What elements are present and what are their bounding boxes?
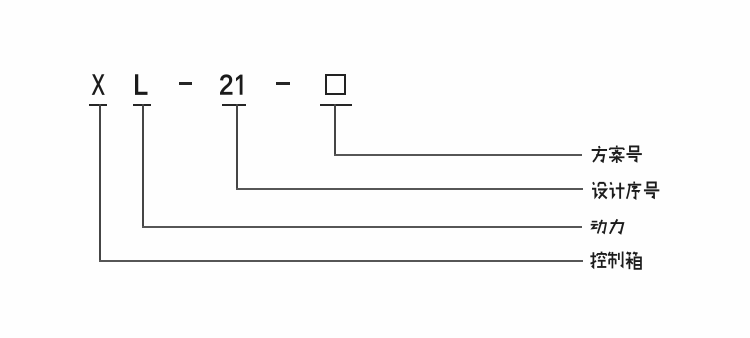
- model code digit 1: [236, 75, 242, 94]
- leader line from square to label 方案号: [333, 103, 335, 105]
- leader line from 21 to label 设计序号: [235, 103, 237, 105]
- tick bar under 21: [222, 104, 246, 106]
- hidden glyph definitions for CJK characters: [0, 0, 6, 6]
- dash 2: [276, 82, 290, 85]
- label 控制箱 (control box): [590, 251, 643, 271]
- dash 1: [179, 82, 192, 85]
- tick bar under L: [133, 104, 151, 106]
- model code letter X: [92, 75, 104, 95]
- model code letter L: [135, 75, 147, 95]
- label 方案号 (scheme number): [591, 145, 643, 165]
- leader line from L to label 动力: [141, 103, 143, 105]
- model code digit 2: [220, 75, 232, 95]
- label 设计序号 (design serial number): [591, 181, 661, 201]
- leader line from X to label 控制箱: [98, 103, 100, 105]
- tick bar under X: [89, 104, 107, 106]
- tick bar under square: [320, 104, 352, 106]
- placeholder square symbol: [325, 74, 346, 95]
- label 动力 (power): [590, 218, 626, 236]
